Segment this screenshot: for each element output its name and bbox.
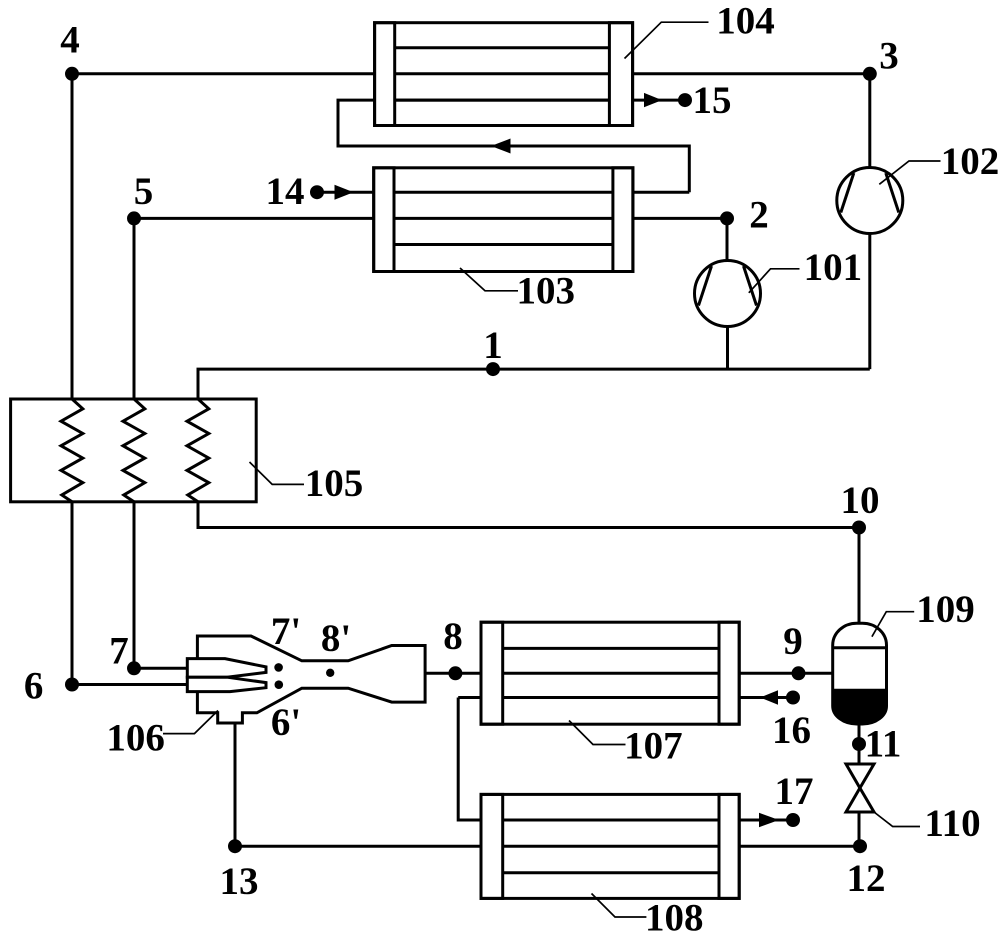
arrow on recuperator loop pointing left [491, 139, 511, 154]
label 105 with leader [250, 462, 364, 505]
node 6 with wire to ejector [24, 664, 188, 707]
label 108 with leader [592, 894, 704, 936]
expansion valve 110 [846, 764, 874, 812]
node 4 [60, 19, 80, 81]
node 7 with wire to ejector [109, 629, 188, 675]
svg-text:9: 9 [783, 620, 803, 663]
wire HX103 top tube line through to loop corner [374, 191, 690, 194]
svg-text:17: 17 [775, 770, 814, 813]
wire recuperator loop from HX104 to HX103 [338, 100, 689, 192]
heat exchanger 108 [481, 794, 739, 898]
wire node4 to node3 top line [72, 72, 870, 75]
node 7' dot in suction chamber [274, 663, 283, 672]
wire ejector outlet through HX107 to separator [425, 672, 833, 675]
wire vertical from HX105 down to node 7 [133, 502, 136, 669]
node 11 [852, 722, 901, 765]
label 101 with leader [749, 246, 862, 293]
label 104 with leader [625, 0, 775, 59]
heat exchanger 107 [481, 622, 739, 724]
label 110 with leader [874, 802, 981, 845]
svg-text:106: 106 [106, 717, 165, 760]
node 8' dot in throat [326, 669, 334, 677]
svg-text:7': 7' [271, 610, 301, 653]
heat exchanger 105 [11, 399, 257, 502]
wire node 2 down to compressor 101 inlet [726, 218, 729, 260]
node 9 [783, 620, 805, 680]
node 2 [720, 194, 769, 237]
wire compressor 101 outlet down to node-1 line [726, 327, 729, 369]
compressor 101 [695, 261, 761, 327]
wire L connection HX107 to HX108 [458, 698, 790, 821]
label 14 [266, 170, 305, 213]
svg-text:16: 16 [772, 709, 811, 752]
label 16 [772, 709, 811, 752]
svg-text:4: 4 [60, 19, 80, 62]
wire node 3 down to compressor 102 inlet [868, 74, 871, 168]
svg-text:103: 103 [517, 270, 576, 313]
node 12 [847, 839, 886, 900]
wire HX107 lower tube line to arrow 16 [458, 696, 792, 699]
svg-text:3: 3 [879, 35, 899, 78]
wire 14 inlet into HX103 [317, 191, 374, 194]
svg-text:105: 105 [305, 462, 364, 505]
node 6' dot in suction chamber [275, 680, 284, 689]
label 106 with leader [106, 711, 218, 760]
arrow 16 inlet with dot pointing left [760, 690, 800, 704]
svg-text:104: 104 [716, 0, 775, 43]
arrow 15 outlet with dot [644, 93, 692, 107]
svg-text:107: 107 [624, 725, 683, 768]
ejector 106 motive nozzle lower channel [187, 677, 266, 691]
compressor 102 [837, 168, 903, 234]
label 102 with leader [879, 140, 999, 184]
svg-text:6: 6 [24, 664, 44, 707]
node 5 [127, 170, 153, 225]
svg-text:14: 14 [266, 170, 305, 213]
label 107 with leader [569, 721, 683, 768]
node 8 [443, 615, 463, 680]
svg-text:11: 11 [865, 722, 902, 765]
wire valve to node 12 [858, 812, 861, 846]
separator 109 vessel [833, 623, 887, 724]
node 10 [841, 479, 880, 535]
svg-text:101: 101 [804, 246, 863, 289]
arrow 14 inlet with dot [310, 185, 354, 200]
node 3 [863, 35, 899, 81]
svg-text:15: 15 [693, 79, 732, 122]
ejector 106 body [197, 636, 425, 723]
heat exchanger 104 [375, 23, 633, 126]
svg-text:8: 8 [443, 615, 463, 658]
wire node-1 horizontal line [198, 369, 870, 399]
label 103 with leader [460, 268, 575, 313]
svg-text:8': 8' [321, 617, 351, 660]
svg-text:7: 7 [109, 629, 129, 672]
arrow 17 outlet with dot pointing right [759, 813, 800, 827]
wire ejector notch down to node 13 and through HX108 to node 12 [235, 723, 860, 846]
wire left vertical from HX105 down to node 6 [71, 502, 74, 685]
label 7' [271, 610, 301, 653]
svg-text:6': 6' [271, 701, 301, 744]
wire HX104 bottom tube line to arrow 15 [375, 99, 684, 102]
svg-text:110: 110 [924, 802, 980, 845]
ejector 106 motive nozzle upper channel [187, 659, 266, 678]
svg-text:5: 5 [134, 170, 154, 213]
wire left vertical from node 4 down to HX105 [71, 74, 74, 399]
svg-text:2: 2 [749, 194, 769, 237]
label 8' [321, 617, 351, 660]
wire node5 horizontal to node 2 [134, 217, 727, 220]
svg-text:10: 10 [841, 479, 880, 522]
node 13 [220, 839, 259, 903]
wire vertical from node 5 down to HX105 [133, 218, 136, 399]
label 6' [271, 701, 301, 744]
label 15 [693, 79, 732, 122]
label 109 with leader [872, 588, 975, 637]
wire separator bottom to valve [858, 723, 861, 764]
node 1 [483, 324, 503, 376]
wire HX105 third coil bottom to node 10 and down to separator [198, 502, 859, 624]
heat exchanger 103 [374, 168, 633, 272]
svg-text:109: 109 [916, 588, 975, 631]
svg-text:108: 108 [645, 897, 704, 936]
svg-text:12: 12 [847, 857, 886, 900]
wire compressor 102 outlet down to node-1 line [868, 233, 871, 369]
svg-text:102: 102 [941, 140, 1000, 183]
svg-text:1: 1 [483, 324, 503, 367]
svg-text:13: 13 [220, 860, 259, 903]
label 17 [775, 770, 814, 813]
